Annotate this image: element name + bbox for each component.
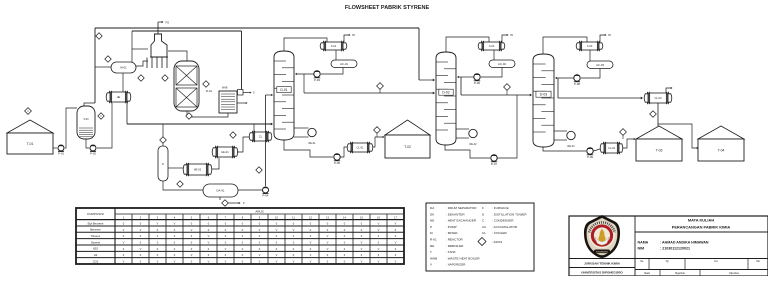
svg-text:AC-03: AC-03 [596, 63, 604, 67]
svg-text:P-04: P-04 [263, 194, 269, 198]
svg-text:M-01: M-01 [120, 66, 127, 70]
svg-text:: DRUM SEPARATOR: : DRUM SEPARATOR [446, 206, 477, 210]
svg-text:HE-01: HE-01 [221, 150, 229, 154]
svg-text:V: V [140, 247, 142, 251]
svg-text:FG: FG [166, 21, 170, 25]
svg-text:CL-02: CL-02 [608, 146, 616, 150]
svg-text:: PUMP: : PUMP [446, 225, 457, 229]
svg-text:Hal: Hal [756, 261, 760, 263]
svg-text:: MIXER: : MIXER [446, 231, 458, 235]
svg-text:UNIVERSITAS DIPONEGORO: UNIVERSITAS DIPONEGORO [581, 271, 623, 275]
svg-text:V: V [327, 247, 329, 251]
svg-text:FLOWSHEET PABRIK STYRENE: FLOWSHEET PABRIK STYRENE [345, 5, 430, 11]
svg-text:CO2: CO2 [93, 259, 99, 263]
svg-text:CL: CL [259, 135, 263, 139]
svg-text:RE-02: RE-02 [469, 143, 477, 146]
svg-text:AC-01: AC-01 [340, 62, 348, 66]
svg-text:RE: RE [430, 244, 434, 248]
svg-text:V: V [293, 260, 295, 264]
svg-text:V: V [191, 228, 193, 232]
svg-text:: REBOILER: : REBOILER [446, 244, 464, 248]
svg-text:HE: HE [117, 95, 121, 99]
svg-text:V: V [225, 247, 227, 251]
svg-text:D-03: D-03 [540, 93, 547, 97]
svg-text:D-02: D-02 [442, 91, 449, 95]
svg-text:V: V [208, 240, 210, 244]
svg-text:Benzene: Benzene [90, 228, 101, 232]
svg-text:R-01: R-01 [430, 238, 437, 242]
svg-text:: AHMAD ANDIKA HIMAWAN: : AHMAD ANDIKA HIMAWAN [660, 241, 709, 245]
svg-text:V: V [378, 228, 380, 232]
svg-text:: FURNACE: : FURNACE [492, 206, 509, 210]
svg-text:V: V [259, 253, 261, 257]
svg-text:Digambar: Digambar [675, 272, 685, 275]
svg-text:D-01: D-01 [280, 88, 287, 92]
svg-text:: 21030112120021: : 21030112120021 [660, 247, 690, 251]
svg-text:P-06: P-06 [474, 81, 480, 85]
svg-text:SEMARANG: SEMARANG [596, 250, 609, 253]
svg-text:V: V [378, 247, 380, 251]
svg-text:: DISTILLATION TOWER: : DISTILLATION TOWER [492, 212, 527, 216]
svg-text:M: M [430, 231, 433, 235]
svg-text:T-04: T-04 [718, 148, 725, 152]
svg-text:T: T [430, 250, 432, 254]
svg-text:AC: AC [482, 225, 487, 229]
svg-text:R-01: R-01 [206, 89, 213, 93]
svg-text:: WASTE HEAT BOILER: : WASTE HEAT BOILER [446, 256, 480, 260]
svg-text:T-01: T-01 [27, 142, 34, 146]
svg-text:NIM: NIM [638, 247, 645, 251]
svg-text:P-08: P-08 [574, 82, 580, 86]
svg-text:C-02: C-02 [489, 44, 495, 48]
svg-text:: REACTOR: : REACTOR [446, 238, 464, 242]
svg-text:V: V [395, 221, 397, 225]
svg-text:RE-01: RE-01 [308, 142, 316, 145]
svg-text:P-07: P-07 [491, 162, 497, 166]
svg-text:RE-03: RE-03 [567, 145, 575, 148]
svg-text:T-02: T-02 [404, 145, 411, 149]
svg-text:Skala: Skala [644, 273, 650, 275]
svg-text:P-09: P-09 [587, 155, 593, 159]
svg-text:V: V [293, 228, 295, 232]
svg-text:Toluene: Toluene [91, 234, 101, 238]
svg-text:ARUS: ARUS [255, 210, 263, 214]
svg-text:V: V [310, 260, 312, 264]
svg-text:P-01: P-01 [58, 152, 64, 156]
svg-text:: DEKANTER: : DEKANTER [446, 212, 465, 216]
svg-text:V: V [378, 260, 380, 264]
svg-text:AC-02: AC-02 [498, 62, 506, 66]
svg-text:V-01: V-01 [83, 117, 89, 121]
svg-text:V: V [276, 228, 278, 232]
svg-text:WHB: WHB [222, 88, 228, 90]
svg-text:V: V [276, 260, 278, 264]
svg-text:V: V [310, 253, 312, 257]
svg-text:JURUSAN TEKNIK KIMIA: JURUSAN TEKNIK KIMIA [584, 262, 621, 266]
svg-text:: ARUS: : ARUS [492, 240, 502, 244]
svg-text:P-05: P-05 [334, 161, 340, 165]
svg-text:Styrene: Styrene [91, 240, 101, 244]
svg-text:: CONDENSER: : CONDENSER [492, 219, 514, 223]
svg-text:H2O: H2O [93, 247, 99, 251]
svg-text:C-01: C-01 [331, 44, 337, 48]
svg-text:V: V [174, 260, 176, 264]
svg-text:V: V [208, 260, 210, 264]
svg-text:Diperiksa: Diperiksa [729, 272, 739, 275]
svg-text:V: V [191, 253, 193, 257]
svg-text:CL-03: CL-03 [654, 96, 662, 100]
svg-text:P-03: P-03 [314, 78, 320, 82]
svg-text:: HEAT EXCHANGER: : HEAT EXCHANGER [446, 219, 477, 223]
svg-text:C-03: C-03 [587, 44, 593, 48]
svg-text:KOMPOSISI: KOMPOSISI [87, 212, 104, 216]
svg-text:V: V [327, 240, 329, 244]
svg-text:V: V [310, 240, 312, 244]
svg-text:: VAPORIZER: : VAPORIZER [446, 263, 466, 267]
svg-text:V: V [361, 260, 363, 264]
svg-text:V: V [395, 240, 397, 244]
svg-text:V: V [361, 247, 363, 251]
svg-text:DA-01: DA-01 [217, 189, 225, 193]
svg-text:NAMA: NAMA [638, 241, 649, 245]
svg-text:: ACCUMULATOR: : ACCUMULATOR [492, 225, 518, 229]
svg-text:MATA KULIAH: MATA KULIAH [688, 218, 714, 223]
svg-text:V: V [361, 240, 363, 244]
svg-text:V: V [123, 240, 125, 244]
svg-text:Ket: Ket [714, 260, 718, 263]
svg-text:P: P [430, 225, 432, 229]
svg-text:V: V [174, 221, 176, 225]
svg-text:V: V [327, 234, 329, 238]
svg-text:V: V [123, 260, 125, 264]
svg-text:F: F [482, 206, 484, 210]
svg-text:CL: CL [482, 231, 486, 235]
svg-text:No.: No. [640, 261, 644, 263]
svg-text:: TANK: : TANK [446, 250, 457, 254]
svg-text:Etyl Benzene: Etyl Benzene [88, 221, 104, 225]
svg-text:V: V [378, 221, 380, 225]
svg-text:T-03: T-03 [656, 148, 663, 152]
svg-text:CL-01: CL-01 [356, 146, 364, 150]
svg-text:D: D [162, 163, 164, 166]
svg-text:V: V [208, 234, 210, 238]
svg-text:HE: HE [430, 219, 434, 223]
svg-text:H2: H2 [94, 253, 98, 257]
svg-text:: COOLER: : COOLER [492, 231, 508, 235]
svg-text:V: V [157, 221, 159, 225]
svg-text:P-02: P-02 [90, 152, 96, 156]
svg-text:HE-02: HE-02 [194, 168, 202, 172]
svg-text:WHB: WHB [430, 256, 437, 260]
svg-text:V: V [276, 253, 278, 257]
svg-text:PERANCANGAN PABRIK KIMIA: PERANCANGAN PABRIK KIMIA [672, 225, 731, 230]
svg-text:Tgl: Tgl [665, 261, 669, 263]
